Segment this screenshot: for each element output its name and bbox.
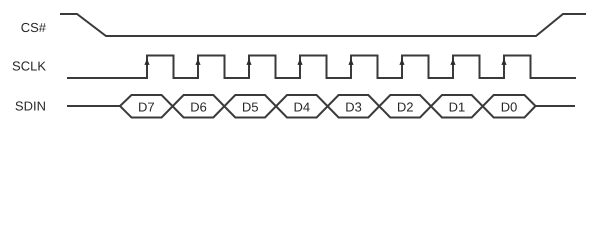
data label D7 — [139, 103, 154, 112]
wire SDIN bus lower zigzag — [120, 95, 536, 118]
data label D6 — [191, 102, 206, 111]
arrow on SCLK rising edge 7 — [450, 59, 455, 65]
signal label SCLK — [13, 61, 46, 70]
arrow on SCLK rising edge 1 — [144, 59, 149, 65]
arrow on SCLK rising edge 2 — [195, 59, 200, 65]
data label D2 — [398, 102, 413, 111]
arrow on SCLK rising edge 6 — [399, 59, 404, 65]
wire SCLK waveform: 8 clock pulses — [67, 56, 576, 79]
wire CS# waveform: high, fall, low, rise, high — [60, 14, 586, 36]
arrow on SCLK rising edge 5 — [348, 59, 353, 65]
data label D0 — [502, 102, 517, 111]
data label D1 — [450, 103, 465, 112]
wire SDIN trailing idle line — [536, 105, 576, 107]
arrow on SCLK rising edge 4 — [297, 59, 302, 65]
signal label SDIN — [16, 101, 45, 110]
signal label CS# — [21, 23, 46, 32]
wire SDIN leading idle line — [67, 105, 120, 107]
data label D4 — [295, 103, 310, 112]
wire SDIN bus upper zigzag — [120, 95, 536, 118]
arrow on SCLK rising edge 8 — [501, 59, 506, 65]
arrow on SCLK rising edge 3 — [246, 59, 251, 65]
data label D5 — [243, 103, 258, 112]
data label D3 — [346, 102, 361, 111]
